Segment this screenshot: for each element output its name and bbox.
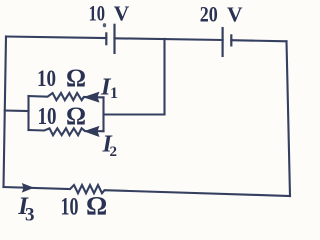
svg-text:Ω: Ω xyxy=(66,65,86,92)
svg-text:V: V xyxy=(114,2,130,26)
svg-text:10: 10 xyxy=(61,194,79,221)
svg-text:3: 3 xyxy=(25,204,35,225)
svg-text:Ω: Ω xyxy=(86,191,107,221)
svg-text:V: V xyxy=(227,3,243,27)
svg-text:20: 20 xyxy=(200,2,218,27)
svg-text:Ω: Ω xyxy=(66,103,86,130)
svg-text:10: 10 xyxy=(38,104,57,130)
svg-text:10: 10 xyxy=(37,66,56,91)
svg-text:2: 2 xyxy=(110,144,118,160)
svg-text:1: 1 xyxy=(110,85,118,102)
svg-text:10: 10 xyxy=(89,1,106,26)
